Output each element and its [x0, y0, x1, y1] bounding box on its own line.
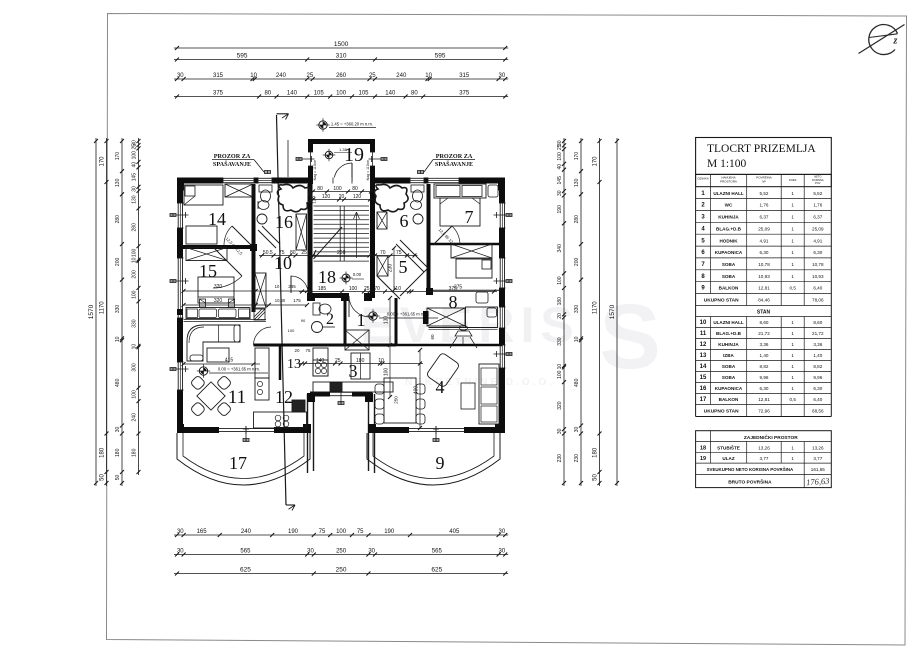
svg-text:25,09: 25,09	[758, 226, 770, 231]
wardrobe xbox room 5	[451, 244, 492, 258]
svg-text:6: 6	[400, 211, 409, 231]
watermark	[360, 286, 660, 388]
svg-text:25,09: 25,09	[812, 226, 824, 231]
svg-text:130: 130	[384, 316, 390, 325]
svg-text:KUPAONICA: KUPAONICA	[715, 386, 743, 391]
svg-text:105: 105	[314, 91, 325, 97]
svg-text:BLAG.+D.B: BLAG.+D.B	[716, 226, 742, 231]
svg-text:25: 25	[369, 250, 375, 256]
interior vertical dim 120 stair	[312, 192, 331, 204]
svg-text:180: 180	[132, 448, 138, 457]
svg-text:IZBA: IZBA	[723, 353, 734, 358]
svg-text:17: 17	[700, 397, 707, 403]
svg-text:100: 100	[349, 286, 358, 292]
thin partition line below sideboard	[184, 320, 267, 322]
svg-text:100: 100	[132, 390, 138, 399]
svg-text:565: 565	[432, 549, 443, 555]
svg-text:180: 180	[115, 448, 121, 457]
svg-text:13,26: 13,26	[758, 445, 770, 450]
svg-text:15: 15	[199, 261, 217, 281]
svg-text:15: 15	[700, 375, 707, 381]
bed room 14	[184, 185, 223, 205]
washbasin room 16	[257, 214, 267, 224]
svg-text:250: 250	[394, 396, 399, 404]
svg-text:90: 90	[301, 318, 306, 323]
svg-text:80: 80	[352, 186, 358, 192]
svg-text:105: 105	[358, 91, 369, 97]
svg-text:30: 30	[368, 549, 375, 555]
svg-text:z: z	[893, 36, 898, 47]
svg-text:21,72: 21,72	[812, 331, 824, 336]
svg-text:9,96: 9,96	[813, 375, 822, 380]
svg-text:1: 1	[791, 238, 794, 243]
svg-text:10: 10	[274, 253, 292, 273]
window marker at prozor right	[418, 171, 424, 174]
svg-text:12: 12	[275, 387, 293, 407]
svg-text:75: 75	[305, 348, 311, 353]
stairwell left wall	[308, 184, 313, 298]
svg-text:1,76: 1,76	[813, 203, 822, 208]
door landing to apartment left	[291, 276, 308, 296]
stairwell right wall	[370, 184, 375, 298]
wardrobe xbox room 15	[186, 248, 227, 261]
prozor za spasavanje label right	[424, 153, 475, 172]
svg-text:50: 50	[100, 474, 106, 481]
interior vertical dim 400 room 4	[414, 348, 423, 430]
svg-text:3,36: 3,36	[813, 342, 822, 347]
right apartment bottom wall	[368, 426, 502, 434]
wall rooms 7-8 left boundary	[427, 184, 431, 291]
svg-text:BALKON: BALKON	[719, 286, 739, 291]
svg-text:625: 625	[240, 567, 251, 574]
svg-text:PROSTORA: PROSTORA	[720, 180, 737, 184]
balcony 9 outline	[367, 433, 500, 485]
svg-text:30: 30	[177, 549, 184, 555]
svg-text:1,40: 1,40	[813, 353, 822, 358]
svg-text:0,5: 0,5	[790, 397, 797, 402]
svg-text:6,30: 6,30	[760, 386, 769, 391]
svg-text:165: 165	[197, 529, 208, 535]
dimension column right 2	[593, 138, 602, 486]
room 8 small square	[476, 292, 488, 303]
interior dims 80-100-80	[310, 186, 374, 194]
svg-text:25: 25	[132, 144, 138, 150]
svg-text:68,56: 68,56	[812, 409, 824, 414]
svg-text:6,37: 6,37	[760, 215, 769, 220]
svg-text:200: 200	[574, 258, 580, 267]
room 4 dining table	[375, 378, 425, 424]
svg-text:SOBA: SOBA	[722, 375, 736, 380]
toilet room 6	[411, 185, 424, 202]
wall room 8 top thin	[429, 289, 500, 291]
svg-text:40: 40	[132, 162, 138, 168]
svg-text:200: 200	[115, 258, 121, 267]
interior dims 120-20-120	[310, 194, 373, 202]
dining table room 11	[190, 375, 232, 417]
svg-text:0,5: 0,5	[790, 286, 797, 291]
sideboard row between rooms 15 and 11	[186, 308, 250, 319]
svg-text:100: 100	[288, 328, 295, 333]
door room 14 diagonal	[224, 226, 251, 245]
svg-text:250: 250	[336, 567, 347, 574]
window marker left wall 2	[170, 278, 189, 284]
right outer wall	[499, 178, 506, 434]
section line vertical	[277, 114, 296, 511]
svg-text:S: S	[599, 286, 660, 388]
svg-text:240: 240	[241, 529, 252, 535]
canopy edge line left of entrance block	[287, 140, 289, 177]
svg-text:9: 9	[436, 453, 445, 473]
svg-text:5,52: 5,52	[813, 191, 822, 196]
room 4 sofa	[479, 364, 499, 424]
interior dim 415 living 11	[182, 358, 261, 367]
svg-text:KUPAONICA: KUPAONICA	[715, 250, 743, 255]
svg-text:10,93: 10,93	[812, 274, 824, 279]
svg-text:1500: 1500	[334, 41, 349, 48]
svg-text:2: 2	[326, 311, 334, 328]
datum 0.00 = +361.65 left	[197, 364, 268, 377]
svg-text:5,52: 5,52	[760, 191, 769, 196]
shaft xbox room 6 wall	[377, 212, 387, 229]
svg-text:13: 13	[287, 357, 301, 372]
entrance block room 19 walls	[308, 142, 375, 185]
svg-text:ULAZ: ULAZ	[722, 456, 734, 461]
svg-text:1170: 1170	[593, 301, 599, 315]
dimension column right fine	[557, 138, 566, 486]
room 8 desk chair	[450, 326, 477, 349]
svg-text:176,63: 176,63	[806, 476, 830, 488]
wall hall 5 / hall 1	[344, 298, 347, 345]
bed room 5	[456, 259, 492, 278]
svg-text:7: 7	[465, 207, 474, 227]
wall between rooms 14-15 and corridor	[252, 184, 256, 312]
svg-text:BALKON: BALKON	[719, 397, 739, 402]
svg-text:80: 80	[317, 186, 323, 192]
svg-text:330: 330	[574, 305, 580, 314]
svg-text:565: 565	[240, 549, 251, 555]
svg-text:25: 25	[301, 250, 307, 256]
svg-text:UKUPNO STAN: UKUPNO STAN	[704, 298, 739, 304]
svg-text:0.00 = +361.65 m n.m.: 0.00 = +361.65 m n.m.	[387, 312, 429, 317]
door landing to apartment right	[349, 295, 370, 318]
svg-text:25: 25	[364, 286, 370, 292]
wall room 4 top right	[396, 344, 502, 347]
door hall 10 to living	[254, 316, 272, 345]
svg-text:10: 10	[557, 364, 563, 370]
svg-text:180: 180	[593, 447, 599, 458]
svg-text:330: 330	[132, 319, 138, 328]
svg-text:315: 315	[459, 73, 470, 79]
dimension row bottom 1	[174, 529, 508, 537]
svg-text:M 1:100: M 1:100	[707, 158, 747, 170]
svg-text:1: 1	[791, 274, 794, 279]
svg-text:75: 75	[357, 529, 364, 535]
svg-text:185: 185	[318, 286, 327, 292]
svg-text:170: 170	[100, 156, 106, 167]
svg-text:30: 30	[307, 549, 314, 555]
svg-text:140: 140	[287, 91, 298, 97]
svg-text:1: 1	[791, 250, 794, 255]
dimension row top 4	[174, 91, 508, 99]
shaft xbox hall 5	[377, 256, 388, 276]
svg-text:250: 250	[336, 549, 347, 555]
svg-text:1.45 = +360.20 m n.m.: 1.45 = +360.20 m n.m.	[331, 122, 373, 127]
svg-text:230: 230	[574, 454, 580, 463]
svg-text:30: 30	[574, 427, 580, 433]
interior dims 320 room 15	[182, 284, 310, 307]
svg-text:280: 280	[574, 215, 580, 224]
svg-text:100: 100	[132, 290, 138, 299]
wardrobe xbox room 14	[225, 184, 253, 197]
dimension column left fine	[132, 138, 141, 475]
svg-text:1: 1	[791, 320, 794, 325]
shaft xbox room 16 wall	[296, 214, 307, 250]
door room 15 diagonal	[213, 247, 242, 288]
svg-text:13: 13	[700, 353, 707, 359]
dresser room 14	[186, 226, 217, 244]
interior dims hall level	[299, 286, 497, 294]
kitchen 12 counters	[254, 348, 307, 428]
svg-text:4,91: 4,91	[813, 238, 822, 243]
svg-text:145: 145	[132, 173, 138, 182]
kitchen 3 xbox	[345, 330, 369, 350]
bathtub cloud room 16	[277, 184, 311, 211]
svg-text:30: 30	[132, 186, 138, 192]
svg-text:10: 10	[250, 73, 257, 79]
svg-text:75: 75	[319, 529, 326, 535]
svg-text:315: 315	[213, 73, 224, 79]
svg-text:3,36: 3,36	[760, 342, 769, 347]
svg-text:170: 170	[593, 156, 599, 167]
window marker left wall 3	[170, 366, 189, 372]
svg-text:SOBA: SOBA	[722, 262, 736, 267]
window marker left wall 1	[170, 212, 189, 218]
svg-text:HODNIK: HODNIK	[719, 238, 738, 243]
svg-text:30: 30	[499, 73, 506, 79]
summary table lower box	[696, 431, 832, 488]
coffee table room 11	[207, 348, 229, 362]
svg-text:SPAŠAVANJE: SPAŠAVANJE	[213, 160, 251, 168]
svg-text:40: 40	[557, 164, 563, 170]
svg-text:375: 375	[454, 285, 463, 291]
window marker right wall 3	[494, 351, 513, 357]
svg-text:25: 25	[307, 73, 314, 79]
svg-text:ULAZNI HALL: ULAZNI HALL	[713, 191, 744, 196]
datum 0.00 room 18	[340, 272, 365, 285]
svg-text:595: 595	[435, 53, 446, 60]
dimension column far left (1570)	[88, 138, 98, 486]
svg-text:84,46: 84,46	[758, 298, 770, 303]
wall room 1 right / room 4	[395, 298, 398, 345]
svg-text:340: 340	[557, 244, 563, 253]
svg-text:130: 130	[132, 195, 138, 204]
svg-text:POV: POV	[815, 181, 821, 185]
svg-text:ZAJEDNIČKI PROSTOR: ZAJEDNIČKI PROSTOR	[744, 434, 798, 441]
svg-text:3,77: 3,77	[760, 456, 769, 461]
svg-text:10,78: 10,78	[758, 262, 770, 267]
svg-text:100: 100	[557, 152, 563, 161]
svg-text:320: 320	[557, 401, 563, 410]
svg-text:10: 10	[132, 257, 138, 263]
svg-text:50.5: 50.5	[263, 250, 273, 256]
svg-text:625: 625	[431, 567, 442, 574]
svg-text:ULAZNI HALL: ULAZNI HALL	[713, 320, 744, 325]
svg-text:595: 595	[237, 53, 248, 60]
balcony 17 right side wall	[308, 394, 314, 473]
svg-text:240: 240	[276, 73, 287, 79]
svg-text:30: 30	[557, 428, 563, 434]
wall kitchen 12 right	[279, 345, 282, 380]
svg-text:10: 10	[700, 320, 707, 326]
svg-text:120: 120	[312, 196, 317, 204]
wall between room 14 and 15	[180, 245, 254, 249]
svg-text:1: 1	[791, 386, 794, 391]
svg-text:16: 16	[700, 386, 707, 392]
bidet room 16	[258, 201, 269, 210]
svg-text:UKUPNO STAN: UKUPNO STAN	[704, 409, 739, 415]
bidet room 6	[411, 201, 422, 210]
svg-text:PROZOR ZA: PROZOR ZA	[436, 153, 473, 160]
hatched box right of sideboard	[254, 309, 265, 320]
svg-text:230: 230	[557, 454, 563, 463]
svg-text:161,65: 161,65	[811, 467, 825, 472]
svg-text:330: 330	[557, 337, 563, 346]
svg-text:8,82: 8,82	[760, 364, 769, 369]
toilet room 16	[259, 185, 272, 202]
interior dims 260	[310, 250, 418, 258]
svg-text:190: 190	[384, 529, 395, 535]
svg-text:11: 11	[700, 331, 707, 337]
dimension column left 2	[100, 138, 109, 486]
svg-text:6,40: 6,40	[813, 286, 822, 291]
svg-text:1170: 1170	[100, 301, 106, 315]
svg-text:8,82: 8,82	[813, 364, 822, 369]
svg-text:480: 480	[574, 378, 580, 387]
svg-text:1: 1	[791, 342, 794, 347]
svg-text:10,60: 10,60	[275, 298, 286, 303]
svg-text:KUHINJA: KUHINJA	[718, 342, 739, 347]
svg-text:260: 260	[336, 73, 347, 79]
svg-text:75: 75	[396, 250, 402, 256]
interior vertical dim 60 room 8	[430, 334, 435, 340]
svg-text:480: 480	[115, 378, 121, 387]
svg-text:30: 30	[499, 529, 506, 535]
svg-text:SVEUKUPNO NETO KORISNA POVRŠIN: SVEUKUPNO NETO KORISNA POVRŠINA	[707, 467, 794, 472]
shaft xbox corridor	[255, 273, 266, 308]
dimension row bottom 3	[174, 567, 508, 576]
prozor za spasavanje label left	[212, 153, 264, 172]
window marker right wall 2	[494, 278, 513, 284]
svg-text:3,77: 3,77	[813, 456, 822, 461]
svg-text:1: 1	[791, 215, 794, 220]
svg-text:STUBIŠTE: STUBIŠTE	[717, 443, 740, 450]
svg-text:130: 130	[574, 178, 580, 187]
svg-text:100: 100	[132, 249, 138, 258]
corner blocks	[177, 178, 505, 434]
dimension column right 3	[609, 138, 619, 486]
stair landing bottom wall	[291, 293, 373, 298]
svg-text:50: 50	[593, 474, 599, 481]
svg-text:405: 405	[449, 529, 460, 535]
wall corridor 10 bottom / kitchen top	[254, 344, 311, 347]
svg-text:6,30: 6,30	[813, 250, 822, 255]
svg-text:Nag = 110cm: Nag = 110cm	[366, 160, 370, 181]
svg-text:SPAŠAVANJE: SPAŠAVANJE	[435, 160, 473, 168]
svg-text:190: 190	[288, 529, 299, 535]
svg-text:4: 4	[436, 377, 445, 397]
svg-text:20: 20	[557, 313, 563, 319]
double diagonal doors hall 5	[373, 240, 428, 303]
interior dims 50.5	[259, 250, 316, 258]
interior dims 20 75 corridor	[288, 318, 311, 353]
marker below balcony 9 slider	[433, 426, 439, 442]
side table room 7	[488, 185, 498, 197]
svg-text:100: 100	[557, 276, 563, 285]
svg-text:30: 30	[557, 190, 563, 196]
bed room 15	[198, 277, 235, 307]
window marker below recess wall	[338, 389, 344, 405]
door bathroom 16 diagonal	[258, 226, 280, 248]
svg-text:190: 190	[557, 205, 563, 214]
svg-text:280: 280	[115, 215, 121, 224]
svg-text:19: 19	[344, 144, 364, 166]
svg-text:16: 16	[275, 212, 293, 232]
svg-text:330: 330	[115, 305, 121, 314]
svg-text:PROZOR ZA: PROZOR ZA	[214, 153, 251, 160]
svg-text:9,96: 9,96	[760, 375, 769, 380]
svg-text:145: 145	[557, 176, 563, 185]
svg-text:0.00: 0.00	[353, 272, 362, 277]
svg-text:310: 310	[336, 53, 347, 60]
svg-text:SOBA: SOBA	[722, 274, 736, 279]
svg-text:100: 100	[333, 186, 342, 192]
svg-text:8,60: 8,60	[813, 320, 822, 325]
svg-text:10: 10	[132, 344, 138, 350]
svg-text:1: 1	[791, 203, 794, 208]
svg-text:14: 14	[700, 364, 707, 370]
svg-text:WC: WC	[725, 203, 733, 208]
svg-text:30: 30	[499, 549, 506, 555]
svg-text:KUHINJA: KUHINJA	[718, 215, 739, 220]
marker below balcony 17 slider	[243, 426, 249, 442]
room 8 xbox	[427, 308, 465, 326]
svg-text:30: 30	[115, 427, 121, 433]
svg-text:3: 3	[349, 361, 358, 381]
svg-text:6,37: 6,37	[813, 215, 822, 220]
svg-text:140: 140	[385, 91, 396, 97]
svg-text:8,60: 8,60	[760, 320, 769, 325]
svg-text:100: 100	[336, 529, 347, 535]
svg-text:20: 20	[339, 194, 345, 200]
interior vertical dim 230 room 5	[388, 246, 397, 292]
svg-text:175: 175	[293, 298, 301, 303]
svg-text:18: 18	[700, 445, 706, 451]
svg-text:6,30: 6,30	[760, 250, 769, 255]
svg-text:180: 180	[557, 297, 563, 306]
svg-text:235: 235	[288, 284, 296, 289]
svg-text:72,96: 72,96	[758, 409, 770, 414]
svg-text:10,78: 10,78	[812, 262, 824, 267]
svg-text:50: 50	[115, 475, 121, 481]
svg-text:300: 300	[132, 363, 138, 372]
entrance door arc room 19	[334, 163, 352, 181]
svg-text:375: 375	[459, 91, 470, 97]
svg-text:180: 180	[100, 447, 106, 458]
datum mark 1.35 in room 19	[323, 147, 352, 161]
svg-text:6,40: 6,40	[813, 397, 822, 402]
dimension row top 3	[174, 73, 508, 81]
svg-text:4,91: 4,91	[760, 238, 769, 243]
